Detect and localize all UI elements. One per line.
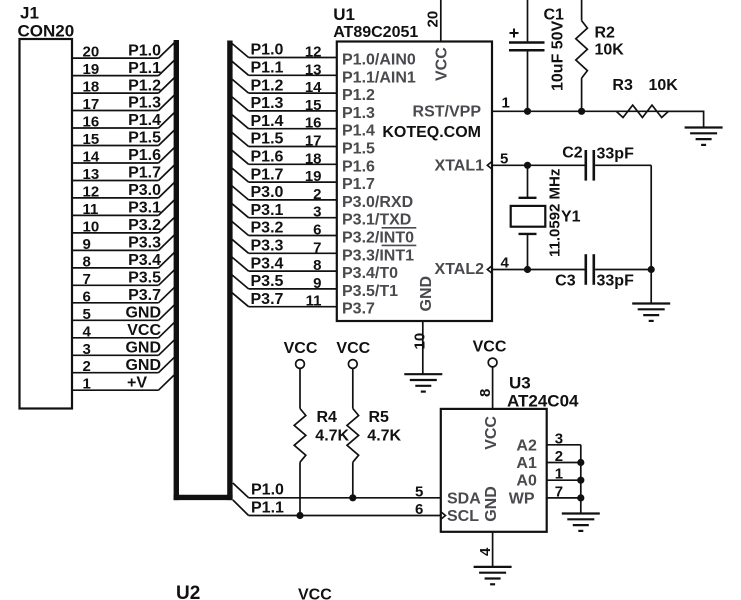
svg-text:3: 3	[555, 430, 563, 447]
J1 pin 9 bus entry	[159, 233, 177, 250]
svg-text:XTAL1: XTAL1	[435, 157, 485, 174]
U3 pin 2 stub wire	[547, 462, 581, 464]
J1 pin 9 stub wire	[72, 249, 159, 251]
svg-text:GND: GND	[418, 276, 435, 312]
U3 SCL clock mark	[441, 512, 446, 520]
VCC symbol for R5	[348, 360, 357, 369]
wire P1.0 (SDA)	[249, 497, 441, 499]
svg-text:P1.4: P1.4	[251, 113, 284, 130]
svg-text:+V: +V	[127, 374, 147, 391]
resistor R5	[347, 409, 359, 463]
ground at U3 pin 4	[474, 566, 512, 568]
svg-text:33pF: 33pF	[597, 272, 635, 289]
bus exit to U1 pin 16	[230, 113, 248, 129]
J1 pin 14 stub wire	[72, 162, 159, 164]
svg-text:16: 16	[305, 115, 322, 132]
svg-text:1: 1	[502, 95, 510, 112]
svg-text:4: 4	[83, 323, 92, 340]
J1 pin 10 stub wire	[72, 232, 159, 234]
wire VCC to R4	[299, 368, 301, 408]
svg-text:15: 15	[305, 97, 322, 114]
svg-text:R3: R3	[612, 77, 633, 94]
J1 pin 6 bus entry	[159, 286, 177, 303]
capacitor C1 top plate	[509, 41, 545, 44]
bus exit to U1 pin 2	[230, 184, 248, 200]
svg-text:17: 17	[83, 96, 100, 113]
svg-text:P1.5: P1.5	[342, 141, 375, 158]
svg-text:13: 13	[83, 166, 100, 183]
U1 pin 18 stub wire	[249, 163, 337, 165]
J1 pin 5 stub wire	[72, 319, 159, 321]
svg-text:P3.7: P3.7	[251, 291, 284, 308]
bus exit to U1 pin 3	[230, 202, 248, 218]
svg-text:P3.4: P3.4	[251, 255, 284, 272]
capacitor C3 left plate	[584, 254, 587, 285]
svg-text:P3.4/T0: P3.4/T0	[342, 265, 398, 282]
U1 XTAL1 clock mark	[487, 162, 492, 170]
svg-text:12: 12	[83, 183, 100, 200]
bus bottom segment	[174, 495, 233, 500]
U1 pin 15 stub wire	[249, 110, 337, 112]
svg-text:XTAL2: XTAL2	[435, 261, 485, 278]
svg-text:10: 10	[83, 218, 100, 235]
svg-text:P1.2: P1.2	[128, 77, 161, 94]
svg-text:P3.7: P3.7	[128, 287, 161, 304]
J1 pin 8 stub wire	[72, 267, 159, 269]
svg-text:U2: U2	[176, 583, 200, 600]
junction XTAL2/Y1	[524, 266, 531, 273]
svg-text:10: 10	[412, 333, 429, 350]
svg-text:4: 4	[477, 547, 494, 556]
svg-text:VCC: VCC	[127, 322, 161, 339]
svg-text:P3.3: P3.3	[251, 238, 284, 255]
svg-text:9: 9	[83, 236, 91, 253]
svg-text:GND: GND	[125, 340, 161, 357]
bus exit to U1 pin 12	[230, 42, 248, 58]
junction A0	[577, 477, 584, 484]
svg-text:P3.4: P3.4	[128, 252, 161, 269]
svg-text:20: 20	[83, 44, 100, 61]
svg-text:11: 11	[306, 293, 322, 310]
wire VCC to R5	[352, 368, 354, 408]
svg-text:2: 2	[83, 358, 91, 375]
junction WP	[577, 494, 584, 501]
svg-text:14: 14	[305, 79, 322, 96]
wire XTAL1 net	[492, 164, 585, 166]
svg-text:P1.1: P1.1	[251, 499, 284, 516]
bus exit to U1 pin 15	[230, 95, 248, 111]
svg-text:33pF: 33pF	[597, 146, 635, 163]
IC U1 body	[337, 42, 492, 322]
capacitor C1 top wire	[527, 0, 529, 41]
svg-text:15: 15	[83, 131, 100, 148]
svg-text:GND: GND	[483, 486, 500, 522]
wire RST/VPP net	[492, 110, 704, 112]
svg-text:19: 19	[83, 61, 100, 78]
svg-text:P3.2: P3.2	[251, 220, 284, 237]
U1 pin 11 stub wire	[249, 306, 337, 308]
svg-text:P1.2: P1.2	[251, 77, 284, 94]
J1 pin 13 stub wire	[72, 180, 159, 182]
svg-text:11: 11	[83, 201, 99, 218]
svg-text:P1.1: P1.1	[128, 60, 161, 77]
crystal Y1 bottom plate	[519, 233, 537, 235]
J1 pin 1 stub wire	[72, 389, 159, 391]
svg-text:4.7K: 4.7K	[367, 428, 401, 445]
bus exit to U1 pin 13	[230, 60, 248, 76]
svg-text:KOTEQ.COM: KOTEQ.COM	[382, 124, 481, 141]
U1 pin 2 stub wire	[249, 199, 337, 201]
J1 pin 2 bus entry	[159, 356, 177, 373]
J1 pin 12 stub wire	[72, 197, 159, 199]
U1 pin 7 stub wire	[249, 252, 337, 254]
svg-text:9: 9	[313, 275, 321, 292]
J1 pin 16 bus entry	[159, 111, 177, 128]
J1 pin 20 stub wire	[72, 57, 159, 59]
svg-text:AT89C2051: AT89C2051	[333, 24, 418, 41]
svg-text:P3.1/TXD: P3.1/TXD	[342, 212, 411, 229]
svg-text:P1.0: P1.0	[251, 42, 284, 59]
svg-text:6: 6	[83, 288, 91, 305]
U1 pin 6 stub wire	[249, 235, 337, 237]
svg-text:P1.0/AIN0: P1.0/AIN0	[342, 52, 416, 69]
capacitor C2 left plate	[584, 150, 587, 181]
svg-text:U3: U3	[509, 374, 531, 393]
svg-text:13: 13	[305, 61, 322, 78]
svg-text:P3.3/INT1: P3.3/INT1	[342, 247, 414, 264]
IC U3 body	[441, 409, 547, 532]
svg-text:P1.3: P1.3	[128, 95, 161, 112]
crystal Y1 body	[511, 206, 546, 227]
svg-text:A0: A0	[516, 473, 537, 490]
right rail wire to ground	[650, 270, 652, 304]
svg-text:GND: GND	[125, 357, 161, 374]
J1 pin 6 stub wire	[72, 302, 159, 304]
J1 pin 7 bus entry	[159, 268, 177, 285]
svg-text:3: 3	[83, 341, 91, 358]
svg-text:10K: 10K	[649, 77, 679, 94]
junction XTAL1/Y1	[524, 162, 531, 169]
bus exit P1.0	[233, 483, 249, 498]
J1 pin 11 bus entry	[159, 198, 177, 215]
svg-text:A1: A1	[516, 455, 537, 472]
J1 pin 13 bus entry	[159, 164, 177, 181]
svg-text:P3.0: P3.0	[251, 184, 284, 201]
svg-text:RST/VPP: RST/VPP	[413, 103, 482, 120]
svg-text:P1.5: P1.5	[251, 131, 284, 148]
resistor R2	[576, 21, 588, 79]
junction R4	[296, 512, 303, 519]
svg-text:P1.1: P1.1	[251, 60, 284, 77]
svg-text:P1.5: P1.5	[128, 130, 161, 147]
U1 pin 17 stub wire	[249, 146, 337, 148]
svg-text:VCC: VCC	[284, 340, 318, 357]
J1 pin 8 bus entry	[159, 251, 177, 268]
J1 pin 7 stub wire	[72, 284, 159, 286]
junction A1	[577, 459, 584, 466]
svg-text:8: 8	[477, 389, 494, 397]
svg-text:AT24C04: AT24C04	[507, 391, 579, 410]
bus exit P1.1	[233, 500, 249, 516]
svg-text:P1.2: P1.2	[342, 87, 375, 104]
ground at crystal rail	[632, 302, 670, 304]
svg-text:17: 17	[305, 133, 322, 150]
junction right rail / C3	[648, 266, 655, 273]
svg-text:P1.1/AIN1: P1.1/AIN1	[342, 69, 416, 86]
J1 pin 1 bus entry	[159, 373, 177, 390]
junction at C1/RST	[524, 108, 531, 115]
svg-text:P1.3: P1.3	[342, 105, 375, 122]
overline for INT0	[382, 227, 417, 229]
U1 XTAL2 clock mark	[487, 266, 492, 274]
svg-text:C2: C2	[562, 145, 583, 162]
svg-text:P3.1: P3.1	[128, 200, 161, 217]
bus exit to U1 pin 19	[230, 167, 248, 183]
J1 pin 4 stub wire	[72, 337, 159, 339]
wire U1 GND pin 10 down	[422, 321, 424, 374]
bus exit to U1 pin 18	[230, 149, 248, 165]
wire VCC to U3 pin 8	[492, 367, 494, 409]
crystal Y1 top wire	[527, 165, 529, 198]
wire R4 to I2C line	[299, 462, 301, 515]
J1 pin 15 bus entry	[159, 129, 177, 146]
svg-text:18: 18	[305, 150, 322, 167]
svg-text:WP: WP	[509, 490, 535, 507]
svg-text:P1.0: P1.0	[251, 482, 284, 499]
svg-text:P3.0: P3.0	[128, 182, 161, 199]
svg-text:P1.4: P1.4	[342, 123, 375, 140]
capacitor C2 right plate	[592, 150, 595, 181]
svg-text:VCC: VCC	[483, 416, 500, 450]
J1 pin 2 stub wire	[72, 372, 159, 374]
svg-text:P3.0/RXD: P3.0/RXD	[342, 194, 413, 211]
svg-text:P3.1: P3.1	[251, 202, 284, 219]
svg-text:5: 5	[83, 306, 91, 323]
junction R5	[349, 494, 356, 501]
bus exit to U1 pin 6	[230, 220, 248, 236]
VCC symbol for U3	[488, 358, 497, 367]
U1 pin 9 stub wire	[249, 288, 337, 290]
bus exit to U1 pin 7	[230, 238, 248, 254]
J1 pin 10 bus entry	[159, 216, 177, 233]
J1 pin 17 bus entry	[159, 94, 177, 111]
U1 pin 16 stub wire	[249, 128, 337, 130]
U1 pin 8 stub wire	[249, 270, 337, 272]
U1 pin 19 stub wire	[249, 181, 337, 183]
svg-text:12: 12	[305, 44, 322, 61]
svg-text:VCC: VCC	[336, 340, 370, 357]
bus exit to U1 pin 11	[230, 291, 248, 307]
J1 pin 18 bus entry	[159, 76, 177, 93]
svg-text:P3.3: P3.3	[128, 235, 161, 252]
overline for INT1	[382, 244, 417, 246]
U3 pin 7 stub wire	[547, 497, 581, 499]
resistor R2 top wire	[581, 0, 583, 21]
U1 pin 14 stub wire	[249, 92, 337, 94]
svg-text:A2: A2	[516, 437, 537, 454]
resistor R3	[616, 105, 668, 117]
svg-text:11.0592 MHz: 11.0592 MHz	[547, 169, 564, 257]
wire R3 to ground corner	[669, 111, 704, 127]
resistor R2 bottom wire	[581, 78, 583, 111]
svg-text:14: 14	[83, 149, 100, 166]
bus to U1 (right vertical)	[227, 41, 232, 501]
ground at R3	[685, 126, 723, 128]
svg-text:P1.7: P1.7	[342, 176, 375, 193]
J1 pin 11 stub wire	[72, 214, 159, 216]
svg-text:P3.2: P3.2	[128, 217, 161, 234]
svg-text:19: 19	[305, 168, 322, 185]
svg-text:SCL: SCL	[447, 508, 479, 525]
svg-text:P1.3: P1.3	[251, 95, 284, 112]
svg-text:Y1: Y1	[561, 209, 581, 226]
U3 pin 3 stub wire	[547, 444, 581, 446]
U1 pin 12 stub wire	[249, 57, 337, 59]
svg-text:18: 18	[83, 79, 100, 96]
svg-text:P3.5: P3.5	[128, 270, 161, 287]
connector J1 body	[20, 39, 73, 409]
wire P1.1 (SCL)	[249, 515, 441, 517]
svg-text:VCC: VCC	[473, 339, 507, 356]
svg-text:7: 7	[83, 271, 91, 288]
wire address pins to ground	[580, 445, 582, 514]
J1 pin 4 bus entry	[159, 321, 177, 338]
svg-text:VCC: VCC	[298, 587, 332, 600]
capacitor C1 bottom wire	[527, 52, 529, 112]
svg-text:P3.2/INT0: P3.2/INT0	[342, 230, 414, 247]
bus exit to U1 pin 14	[230, 78, 248, 94]
wire R5 to I2C line	[352, 462, 354, 498]
svg-text:2: 2	[313, 186, 321, 203]
svg-text:5: 5	[415, 483, 423, 500]
svg-text:7: 7	[313, 239, 321, 256]
svg-text:10uF 50V: 10uF 50V	[550, 20, 567, 91]
svg-text:P1.7: P1.7	[128, 165, 161, 182]
svg-text:P3.5: P3.5	[251, 273, 284, 290]
svg-text:4.7K: 4.7K	[315, 428, 349, 445]
wire C2 to right rail	[595, 164, 651, 166]
crystal Y1 bottom wire	[527, 234, 529, 270]
svg-text:7: 7	[555, 483, 563, 500]
wire XTAL2 net	[492, 269, 585, 271]
svg-text:P1.0: P1.0	[128, 42, 161, 59]
J1 pin 3 stub wire	[72, 354, 159, 356]
svg-text:1: 1	[83, 376, 91, 393]
crystal Y1 top plate	[519, 197, 537, 199]
svg-text:10K: 10K	[595, 42, 625, 59]
svg-text:16: 16	[83, 114, 100, 131]
svg-text:J1: J1	[20, 4, 39, 23]
svg-text:C3: C3	[555, 272, 576, 289]
VCC symbol for R4	[296, 360, 305, 369]
svg-text:SDA: SDA	[447, 490, 481, 507]
svg-text:P1.6: P1.6	[251, 149, 284, 166]
svg-text:R5: R5	[369, 409, 390, 426]
svg-text:P1.7: P1.7	[251, 166, 284, 183]
bus from J1 (left vertical)	[174, 40, 179, 500]
svg-text:R4: R4	[317, 409, 338, 426]
svg-text:8: 8	[83, 253, 91, 270]
svg-text:6: 6	[313, 222, 321, 239]
svg-text:U1: U1	[333, 5, 355, 24]
svg-text:CON20: CON20	[18, 22, 75, 41]
svg-text:P1.6: P1.6	[128, 147, 161, 164]
J1 pin 16 stub wire	[72, 127, 159, 129]
J1 pin 14 bus entry	[159, 146, 177, 163]
resistor R4	[294, 409, 306, 463]
capacitor C1 plus sign	[510, 32, 519, 34]
U1 pin 3 stub wire	[249, 217, 337, 219]
bus exit to U1 pin 8	[230, 256, 248, 272]
svg-text:6: 6	[415, 501, 423, 518]
svg-text:1: 1	[555, 466, 563, 483]
svg-text:P3.5/T1: P3.5/T1	[342, 283, 398, 300]
svg-text:GND: GND	[125, 305, 161, 322]
svg-text:VCC: VCC	[433, 47, 450, 81]
wire U1 VCC pin 20 to top	[440, 0, 442, 42]
svg-text:20: 20	[425, 11, 442, 28]
bus exit to U1 pin 9	[230, 273, 248, 289]
svg-text:R2: R2	[595, 25, 616, 42]
bus exit to U1 pin 17	[230, 131, 248, 147]
svg-text:P3.7: P3.7	[342, 301, 375, 318]
wire C3 to right rail	[595, 269, 651, 271]
ground at U3 address pins	[562, 512, 600, 514]
svg-text:3: 3	[313, 204, 321, 221]
J1 pin 3 bus entry	[159, 338, 177, 355]
svg-text:2: 2	[555, 448, 563, 465]
J1 pin 20 bus entry	[159, 41, 177, 58]
capacitor C3 right plate	[592, 254, 595, 285]
U3 pin 1 stub wire	[547, 479, 581, 481]
J1 pin 15 stub wire	[72, 145, 159, 147]
J1 pin 12 bus entry	[159, 181, 177, 198]
capacitor C1 bottom plate	[509, 49, 545, 52]
wire U3 GND pin 4 down	[492, 532, 494, 567]
J1 pin 19 bus entry	[159, 59, 177, 76]
ground at U1 pin 10	[404, 373, 442, 375]
U1 pin 13 stub wire	[249, 74, 337, 76]
svg-text:P1.4: P1.4	[128, 112, 161, 129]
J1 pin 18 stub wire	[72, 92, 159, 94]
svg-text:8: 8	[313, 257, 321, 274]
J1 pin 17 stub wire	[72, 110, 159, 112]
right rail wire down to C3	[650, 165, 652, 269]
junction at R2/RST	[578, 108, 585, 115]
J1 pin 5 bus entry	[159, 303, 177, 320]
svg-text:P1.6: P1.6	[342, 158, 375, 175]
J1 pin 19 stub wire	[72, 75, 159, 77]
